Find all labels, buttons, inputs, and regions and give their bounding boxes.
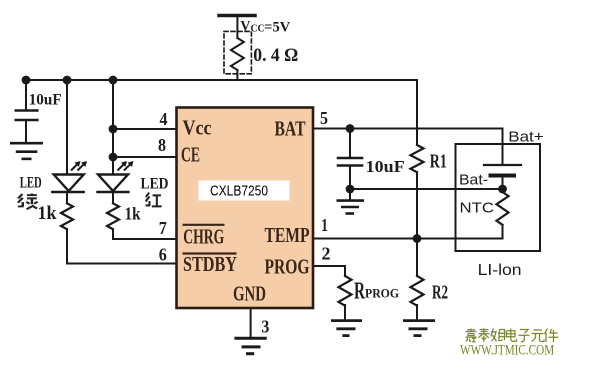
svg-text:1k: 1k <box>38 203 57 224</box>
svg-text:10uF: 10uF <box>366 157 405 176</box>
svg-text:6: 6 <box>159 245 167 265</box>
svg-text:1: 1 <box>321 215 328 235</box>
svg-text:0. 4 Ω: 0. 4 Ω <box>253 45 298 66</box>
svg-text:Bat+: Bat+ <box>508 129 544 146</box>
svg-text:5: 5 <box>320 108 328 128</box>
svg-text:NTC: NTC <box>460 200 495 217</box>
svg-text:=5V: =5V <box>264 19 291 35</box>
svg-text:R: R <box>354 279 365 305</box>
svg-text:CXLB7250: CXLB7250 <box>210 184 268 200</box>
svg-text:TEMP: TEMP <box>265 223 310 247</box>
svg-text:R2: R2 <box>432 282 448 304</box>
svg-text:LED: LED <box>20 175 42 192</box>
svg-text:PROG: PROG <box>265 255 310 279</box>
svg-text:V: V <box>240 19 250 35</box>
svg-text:2: 2 <box>322 244 331 264</box>
svg-text:PROG: PROG <box>365 285 399 300</box>
svg-text:CC: CC <box>251 23 265 34</box>
svg-text:BAT: BAT <box>275 117 306 141</box>
svg-text:CHRG: CHRG <box>183 225 224 249</box>
svg-text:GND: GND <box>233 282 266 306</box>
svg-text:LI-lon: LI-lon <box>478 262 522 279</box>
svg-text:Vcc: Vcc <box>183 116 212 140</box>
svg-text:LED: LED <box>141 176 169 193</box>
svg-text:CE: CE <box>181 143 200 167</box>
svg-text:1k: 1k <box>125 204 141 224</box>
svg-text:8: 8 <box>158 135 166 155</box>
svg-text:4: 4 <box>160 109 168 129</box>
svg-text:7: 7 <box>159 218 167 238</box>
svg-text:WWW.JTMIC.COM: WWW.JTMIC.COM <box>460 342 554 358</box>
svg-text:STDBY: STDBY <box>183 252 237 276</box>
svg-text:3: 3 <box>261 317 269 337</box>
svg-text:10uF: 10uF <box>29 91 62 108</box>
svg-text:R1: R1 <box>430 150 447 172</box>
svg-text:Bat-: Bat- <box>459 172 488 189</box>
